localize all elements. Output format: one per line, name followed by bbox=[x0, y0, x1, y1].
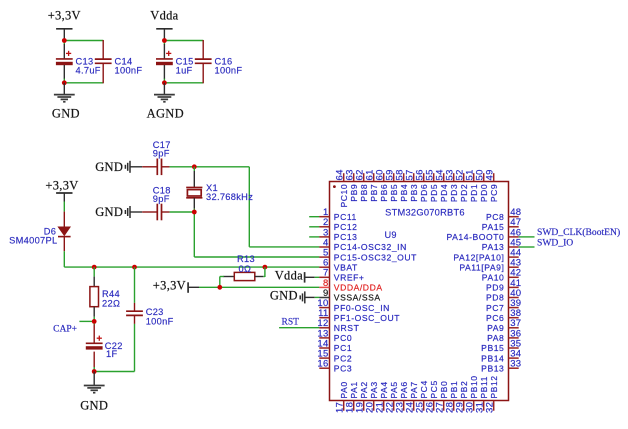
svg-text:SWD_CLK(BootEN): SWD_CLK(BootEN) bbox=[537, 227, 620, 238]
svg-text:PC5: PC5 bbox=[429, 380, 439, 398]
pin 45 PA13 bbox=[482, 237, 522, 252]
svg-text:PB2: PB2 bbox=[459, 381, 469, 399]
svg-text:100nF: 100nF bbox=[215, 66, 243, 76]
pin 4 PC14-OSC32_IN bbox=[319, 237, 407, 252]
svg-text:PD3: PD3 bbox=[449, 184, 459, 202]
pin 57 PB3 bbox=[405, 169, 419, 201]
svg-text:16: 16 bbox=[317, 359, 328, 370]
pin 43 PA11[PA9] bbox=[459, 258, 521, 273]
node junction at C13 bottom bbox=[62, 80, 67, 85]
wire C13 bottom bbox=[64, 79, 103, 83]
svg-text:PC10: PC10 bbox=[339, 184, 349, 208]
svg-text:GND: GND bbox=[52, 106, 80, 120]
pin 53 PD3 bbox=[445, 169, 459, 202]
pin 7 VREF+ bbox=[319, 268, 364, 283]
svg-text:PF1-OSC_OUT: PF1-OSC_OUT bbox=[334, 313, 400, 323]
pin 1 PC11 bbox=[319, 207, 357, 222]
power symbol +3,3V (top left) bbox=[48, 9, 81, 41]
pin 20 PA3 bbox=[364, 381, 379, 413]
svg-text:U9: U9 bbox=[385, 230, 397, 240]
svg-text:GND: GND bbox=[80, 398, 108, 412]
pin 62 PB8 bbox=[355, 169, 369, 201]
svg-text:9pF: 9pF bbox=[153, 149, 170, 159]
svg-text:33: 33 bbox=[510, 359, 521, 370]
pin 2 PC12 bbox=[319, 217, 357, 232]
node junction C23 top bbox=[132, 265, 137, 270]
svg-text:PA12[PA10]: PA12[PA10] bbox=[453, 252, 504, 262]
svg-text:PB8: PB8 bbox=[359, 184, 369, 202]
node junction C22 bottom bbox=[92, 369, 97, 374]
svg-text:1F: 1F bbox=[106, 349, 117, 359]
svg-text:Vdda: Vdda bbox=[150, 9, 178, 23]
svg-text:SWD_IO: SWD_IO bbox=[537, 238, 573, 249]
ground GND (top left) bbox=[52, 83, 80, 121]
wire +3,3V to D6 bbox=[63, 202, 65, 212]
capacitor C18 9pF bbox=[142, 185, 171, 220]
svg-text:PD5: PD5 bbox=[429, 184, 439, 202]
pin 16 PC3 bbox=[317, 359, 352, 374]
svg-text:PD6: PD6 bbox=[419, 184, 429, 202]
svg-text:AGND: AGND bbox=[147, 106, 184, 120]
svg-text:VDDA/DDA: VDDA/DDA bbox=[334, 283, 383, 293]
svg-text:PB13: PB13 bbox=[481, 363, 504, 373]
ground GND (middle) bbox=[270, 289, 320, 304]
svg-text:PD2: PD2 bbox=[459, 184, 469, 202]
capacitor C13 4.7uF bbox=[56, 44, 101, 79]
svg-text:PC14-OSC32_IN: PC14-OSC32_IN bbox=[334, 242, 407, 252]
pin 13 PC0 bbox=[317, 328, 352, 343]
power symbol +3,3V (middle) bbox=[153, 279, 320, 293]
pin 59 PB5 bbox=[385, 169, 399, 201]
pin 41 PD9 bbox=[486, 278, 521, 293]
crystal X1 32.768kHz bbox=[186, 167, 253, 212]
pin 37 PA9 bbox=[487, 318, 521, 333]
wire PC13 stub bbox=[309, 236, 319, 238]
pin 60 PB6 bbox=[375, 169, 389, 201]
wire PC11 stub bbox=[309, 216, 319, 218]
pin 14 PC1 bbox=[317, 338, 352, 353]
pin 52 PD2 bbox=[455, 169, 469, 202]
svg-text:PA15: PA15 bbox=[482, 222, 505, 232]
svg-text:PA10: PA10 bbox=[482, 273, 505, 283]
op-amp U9 STM32G070RBT6 body bbox=[330, 182, 509, 401]
pin 28 PB1 bbox=[444, 381, 459, 413]
svg-text:PF0-OSC_IN: PF0-OSC_IN bbox=[334, 303, 390, 313]
pin 27 PB0 bbox=[434, 381, 449, 413]
pin 17 PA0 bbox=[334, 381, 349, 413]
ground GND (at C17) bbox=[95, 160, 142, 174]
pin 48 PC8 bbox=[486, 207, 521, 222]
pin 39 PC7 bbox=[486, 298, 521, 313]
pin 40 PD8 bbox=[486, 288, 521, 303]
svg-text:PA0: PA0 bbox=[339, 381, 349, 398]
capacitor C17 9pF bbox=[142, 140, 171, 175]
power symbol +3,3V (left) bbox=[45, 179, 78, 202]
pin 5 PC15-OSC32_OUT bbox=[319, 248, 417, 263]
pin 6 VBAT bbox=[319, 258, 358, 273]
pin 49 PC9 bbox=[485, 169, 499, 202]
pin 31 PB11 bbox=[474, 376, 489, 413]
svg-text:PB14: PB14 bbox=[481, 353, 504, 363]
node junction R13 right bbox=[263, 265, 268, 270]
svg-text:PA5: PA5 bbox=[389, 381, 399, 398]
node junction R44 top bbox=[92, 265, 97, 270]
node junction at C13 top bbox=[62, 38, 67, 43]
pin 42 PA10 bbox=[482, 268, 522, 283]
svg-text:PC6: PC6 bbox=[486, 313, 504, 323]
wire SWD_IO to pin 45 bbox=[519, 246, 535, 248]
svg-text:CAP+: CAP+ bbox=[53, 325, 77, 335]
svg-text:PC4: PC4 bbox=[419, 380, 429, 398]
wire VBAT net (long) bbox=[64, 251, 319, 267]
svg-text:R13: R13 bbox=[237, 254, 255, 264]
svg-text:PC11: PC11 bbox=[334, 212, 357, 222]
diode D6 SM4007PL bbox=[9, 212, 71, 252]
resistor R13 0R bbox=[220, 254, 265, 287]
wire C17 to crystal bbox=[170, 166, 195, 168]
pin 63 PB9 bbox=[345, 169, 359, 201]
svg-text:PA9: PA9 bbox=[487, 323, 504, 333]
svg-text:PB5: PB5 bbox=[389, 184, 399, 202]
svg-text:PD8: PD8 bbox=[486, 293, 504, 303]
svg-text:VBAT: VBAT bbox=[334, 262, 358, 272]
svg-text:PA8: PA8 bbox=[487, 333, 504, 343]
svg-text:PA7: PA7 bbox=[409, 381, 419, 398]
pin 10 PF0-OSC_IN bbox=[317, 298, 389, 313]
svg-text:+3,3V: +3,3V bbox=[48, 9, 81, 23]
svg-text:GND: GND bbox=[95, 160, 123, 174]
pin 24 PA7 bbox=[404, 381, 419, 413]
svg-text:PD4: PD4 bbox=[439, 184, 449, 202]
svg-text:PB1: PB1 bbox=[449, 381, 459, 399]
node junction crystal bottom bbox=[192, 210, 197, 215]
svg-text:VREF+: VREF+ bbox=[334, 273, 365, 283]
IC pin-1 indicator dot bbox=[333, 185, 336, 188]
svg-text:VSSA/SSA: VSSA/SSA bbox=[334, 293, 381, 303]
node junction crystal top bbox=[192, 164, 197, 169]
svg-text:PD9: PD9 bbox=[486, 283, 504, 293]
node junction at C15 bottom bbox=[162, 80, 167, 85]
svg-text:GND: GND bbox=[95, 205, 123, 219]
pin 21 PA4 bbox=[374, 381, 389, 413]
pin 54 PD4 bbox=[435, 169, 449, 202]
pin 19 PA2 bbox=[354, 381, 369, 413]
pin 11 PF1-OSC_OUT bbox=[318, 308, 400, 323]
ground GND (bottom) bbox=[80, 372, 108, 413]
wire SWD_CLK to pin 46 bbox=[519, 236, 535, 238]
svg-text:PB10: PB10 bbox=[469, 375, 479, 398]
pin 32 PB12 bbox=[484, 375, 499, 413]
pin 26 PC5 bbox=[424, 380, 439, 413]
wire crystal bottom to PC15 bbox=[194, 212, 319, 257]
svg-text:32: 32 bbox=[484, 402, 495, 413]
svg-text:PB12: PB12 bbox=[489, 375, 499, 398]
svg-text:PB11: PB11 bbox=[479, 376, 489, 399]
pin 25 PC4 bbox=[414, 380, 429, 413]
pin 18 PA1 bbox=[344, 381, 359, 413]
svg-text:9pF: 9pF bbox=[153, 194, 170, 204]
pin 35 PB15 bbox=[481, 338, 521, 353]
wire C18 to crystal bbox=[170, 211, 195, 213]
capacitor C16 100nF bbox=[195, 40, 243, 83]
svg-text:+3,3V: +3,3V bbox=[45, 179, 78, 193]
svg-text:PB15: PB15 bbox=[481, 343, 504, 353]
svg-text:PC12: PC12 bbox=[334, 222, 358, 232]
pin 47 PA15 bbox=[482, 217, 522, 232]
pin 3 PC13 bbox=[319, 227, 357, 242]
svg-text:PC0: PC0 bbox=[334, 333, 352, 343]
svg-text:PA3: PA3 bbox=[369, 381, 379, 398]
pin 22 PA5 bbox=[384, 381, 399, 413]
svg-text:PC7: PC7 bbox=[486, 303, 504, 313]
pin 29 PB2 bbox=[454, 381, 469, 413]
pin 38 PC6 bbox=[486, 308, 521, 323]
capacitor C22 1F bbox=[86, 325, 123, 368]
svg-text:PC8: PC8 bbox=[486, 212, 504, 222]
net label RST bbox=[279, 317, 319, 327]
svg-text:PA4: PA4 bbox=[379, 381, 389, 398]
svg-text:PC1: PC1 bbox=[334, 343, 352, 353]
pin 44 PA12[PA10] bbox=[453, 248, 521, 263]
pin 58 PB4 bbox=[395, 169, 409, 201]
node junction CAP+ bbox=[92, 319, 97, 324]
wire C15 bottom bbox=[164, 79, 203, 83]
wire +3,3V node top bbox=[64, 41, 103, 45]
pin 34 PB14 bbox=[481, 349, 521, 364]
svg-text:1uF: 1uF bbox=[176, 66, 193, 76]
pin 15 PC2 bbox=[317, 349, 352, 364]
svg-text:4.7uF: 4.7uF bbox=[76, 66, 101, 76]
svg-text:PC13: PC13 bbox=[334, 232, 358, 242]
power symbol Vdda bbox=[150, 9, 178, 41]
pin 30 PB10 bbox=[464, 375, 479, 413]
svg-text:PC3: PC3 bbox=[334, 363, 352, 373]
net label CAP+ bbox=[53, 321, 94, 334]
svg-text:NRST: NRST bbox=[334, 323, 360, 333]
svg-text:GND: GND bbox=[270, 289, 298, 303]
svg-text:PC2: PC2 bbox=[334, 353, 352, 363]
capacitor C23 100nF bbox=[126, 267, 173, 371]
node junction +3,3V / R13 bbox=[217, 285, 222, 290]
pin 64 PC10 bbox=[335, 169, 349, 207]
pin 46 PA14-BOOT0 bbox=[447, 227, 522, 242]
pin 56 PD6 bbox=[415, 169, 429, 202]
capacitor C14 100nF bbox=[95, 40, 143, 83]
pin 51 PD1 bbox=[465, 169, 479, 202]
svg-text:PC15-OSC32_OUT: PC15-OSC32_OUT bbox=[334, 252, 417, 262]
svg-text:+3,3V: +3,3V bbox=[153, 279, 186, 293]
ground GND (at C18) bbox=[95, 205, 142, 219]
node junction at C15 top bbox=[162, 38, 167, 43]
svg-text:STM32G070RBT6: STM32G070RBT6 bbox=[385, 207, 465, 217]
svg-text:PB7: PB7 bbox=[369, 184, 379, 202]
svg-text:PA11[PA9]: PA11[PA9] bbox=[459, 262, 504, 272]
svg-text:C23: C23 bbox=[146, 307, 164, 317]
pin 12 NRST bbox=[317, 318, 359, 333]
svg-text:0Ω: 0Ω bbox=[239, 264, 252, 274]
pin 23 PA6 bbox=[394, 381, 409, 413]
svg-text:PB9: PB9 bbox=[349, 184, 359, 202]
wire Vdda node top bbox=[164, 41, 203, 45]
svg-text:PA14-BOOT0: PA14-BOOT0 bbox=[447, 232, 505, 242]
svg-text:Vdda: Vdda bbox=[275, 269, 303, 283]
svg-text:100nF: 100nF bbox=[115, 66, 143, 76]
svg-text:RST: RST bbox=[282, 317, 300, 327]
svg-text:PA6: PA6 bbox=[399, 381, 409, 398]
svg-text:PB3: PB3 bbox=[409, 184, 419, 202]
svg-text:PD0: PD0 bbox=[479, 184, 489, 202]
svg-text:PB4: PB4 bbox=[399, 184, 409, 202]
wire crystal top to PC14 bbox=[194, 167, 319, 247]
capacitor C15 1uF bbox=[156, 44, 194, 79]
pin 33 PB13 bbox=[481, 359, 521, 374]
resistor R44 22R bbox=[90, 267, 120, 317]
wire R44 to C22 bbox=[93, 317, 95, 325]
pin 8 VDDA/DDA bbox=[319, 278, 382, 293]
svg-text:PB0: PB0 bbox=[439, 381, 449, 399]
svg-text:SM4007PL: SM4007PL bbox=[9, 236, 57, 246]
svg-text:PC9: PC9 bbox=[489, 184, 499, 202]
svg-text:PA13: PA13 bbox=[482, 242, 505, 252]
pin 55 PD5 bbox=[425, 169, 439, 202]
power symbol Vdda (middle) bbox=[275, 269, 320, 283]
svg-text:PA2: PA2 bbox=[359, 381, 369, 398]
pin 61 PB7 bbox=[365, 169, 379, 201]
svg-text:PD1: PD1 bbox=[469, 184, 479, 202]
wire PC12 stub bbox=[309, 226, 319, 228]
ground AGND bbox=[147, 83, 184, 121]
svg-text:PA1: PA1 bbox=[349, 381, 359, 398]
svg-text:32.768kHz: 32.768kHz bbox=[206, 192, 253, 202]
pin 50 PD0 bbox=[475, 169, 489, 202]
svg-text:PB6: PB6 bbox=[379, 184, 389, 202]
wire C22 bottom / ground rail bbox=[94, 367, 134, 372]
pin 36 PA8 bbox=[487, 328, 521, 343]
svg-text:22Ω: 22Ω bbox=[102, 298, 120, 308]
svg-text:100nF: 100nF bbox=[146, 317, 174, 327]
svg-text:49: 49 bbox=[485, 169, 496, 180]
pin 9 VSSA/SSA bbox=[319, 288, 380, 303]
